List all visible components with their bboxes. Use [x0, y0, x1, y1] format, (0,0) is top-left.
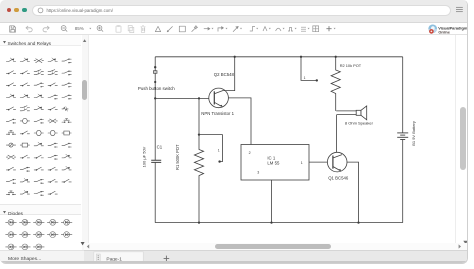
svg-text:B1 9V Battery: B1 9V Battery	[411, 121, 416, 146]
svg-text:Q2 BC548: Q2 BC548	[214, 72, 235, 77]
node base junction left	[154, 97, 156, 99]
wire R1 wiper	[199, 135, 222, 162]
wire right rail lower	[402, 140, 404, 223]
wire dangling pot terminal from rail	[301, 57, 316, 81]
svg-text:R1 500K POT: R1 500K POT	[175, 144, 180, 170]
wire right rail upper	[402, 57, 404, 133]
canvas edge line	[455, 35, 456, 243]
wire left rail upper	[154, 57, 156, 160]
node R1 wiper tap junction	[198, 133, 200, 135]
wire IC pin 3 to ground rail	[271, 180, 273, 223]
svg-text:1: 1	[301, 161, 303, 165]
node R2 top junction	[335, 56, 337, 58]
node IC ground junction	[270, 221, 272, 223]
wire Q2 base	[155, 97, 209, 99]
wire left rail lower	[154, 163, 156, 223]
capacitor C1	[151, 160, 161, 162]
wire Q2 collector to top rail	[223, 57, 234, 91]
svg-text:NPN Transistor 1: NPN Transistor 1	[201, 111, 234, 116]
svg-text:85%: 85%	[75, 26, 84, 31]
wire bottom rail	[155, 222, 403, 224]
svg-text:1: 1	[304, 76, 306, 80]
svg-text:2: 2	[249, 151, 251, 155]
svg-text:Q1 BC546: Q1 BC546	[328, 176, 349, 181]
op-amp U1 / IC box	[241, 145, 309, 181]
resistor R1 pot body	[194, 98, 203, 222]
node collector-rail junction	[234, 56, 236, 58]
wire Q1 collector to speaker	[336, 115, 338, 153]
node Q2 base / R1 top branch	[198, 97, 200, 99]
node Q1 ground junction	[357, 221, 359, 223]
svg-text:https://online.visual-paradigm: https://online.visual-paradigm.com/	[47, 8, 114, 13]
battery B1	[397, 133, 408, 140]
node R1 wiper end	[218, 160, 220, 162]
node below push button	[154, 81, 156, 83]
node R1 bottom junction	[198, 221, 200, 223]
svg-text:R2 10k POT: R2 10k POT	[340, 63, 362, 68]
svg-text:Switches and Relays: Switches and Relays	[8, 41, 52, 46]
transistor Q1	[327, 152, 347, 172]
svg-text:LM 55: LM 55	[267, 160, 280, 165]
svg-text:C1: C1	[157, 144, 163, 149]
node stub end	[316, 79, 318, 81]
wire Q1 emitter to ground rail	[347, 162, 359, 223]
svg-text:1: 1	[218, 148, 220, 152]
svg-text:Online: Online	[438, 31, 449, 35]
wire IC pin 1 to Q1 base	[309, 161, 327, 163]
svg-text:8 Ohm Speaker: 8 Ohm Speaker	[345, 121, 374, 126]
resistor R2 pot	[331, 57, 340, 111]
switch S1 push button	[154, 66, 156, 68]
wire top rail	[155, 56, 403, 58]
svg-text:3: 3	[257, 171, 259, 175]
speaker LS1	[336, 106, 367, 120]
transistor Q2	[209, 88, 229, 108]
node rail-stub junction	[300, 56, 302, 58]
wire Q2 emitter to IC pin 2	[228, 98, 251, 145]
svg-text:100 µF 50V: 100 µF 50V	[142, 146, 147, 167]
svg-text:Push button switch: Push button switch	[138, 86, 175, 91]
